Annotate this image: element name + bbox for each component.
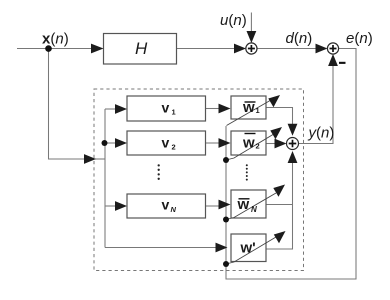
svg-text:1: 1: [172, 108, 176, 117]
svg-text:y(n): y(n): [308, 125, 335, 142]
svg-text:u(n): u(n): [220, 12, 247, 29]
svg-text:v: v: [162, 135, 170, 151]
svg-text:e(n): e(n): [346, 30, 373, 47]
svg-text:d(n): d(n): [286, 30, 313, 47]
svg-text:H: H: [135, 39, 148, 58]
svg-text:N: N: [251, 205, 257, 214]
svg-text:v: v: [162, 197, 170, 213]
svg-text:1: 1: [256, 106, 260, 115]
svg-text:v: v: [162, 100, 170, 116]
svg-text:w': w': [240, 240, 256, 257]
svg-text:N: N: [171, 205, 177, 214]
svg-text:2: 2: [172, 143, 176, 152]
svg-text:x(n): x(n): [42, 31, 69, 48]
svg-text:w: w: [242, 135, 255, 152]
svg-text:2: 2: [256, 142, 260, 151]
